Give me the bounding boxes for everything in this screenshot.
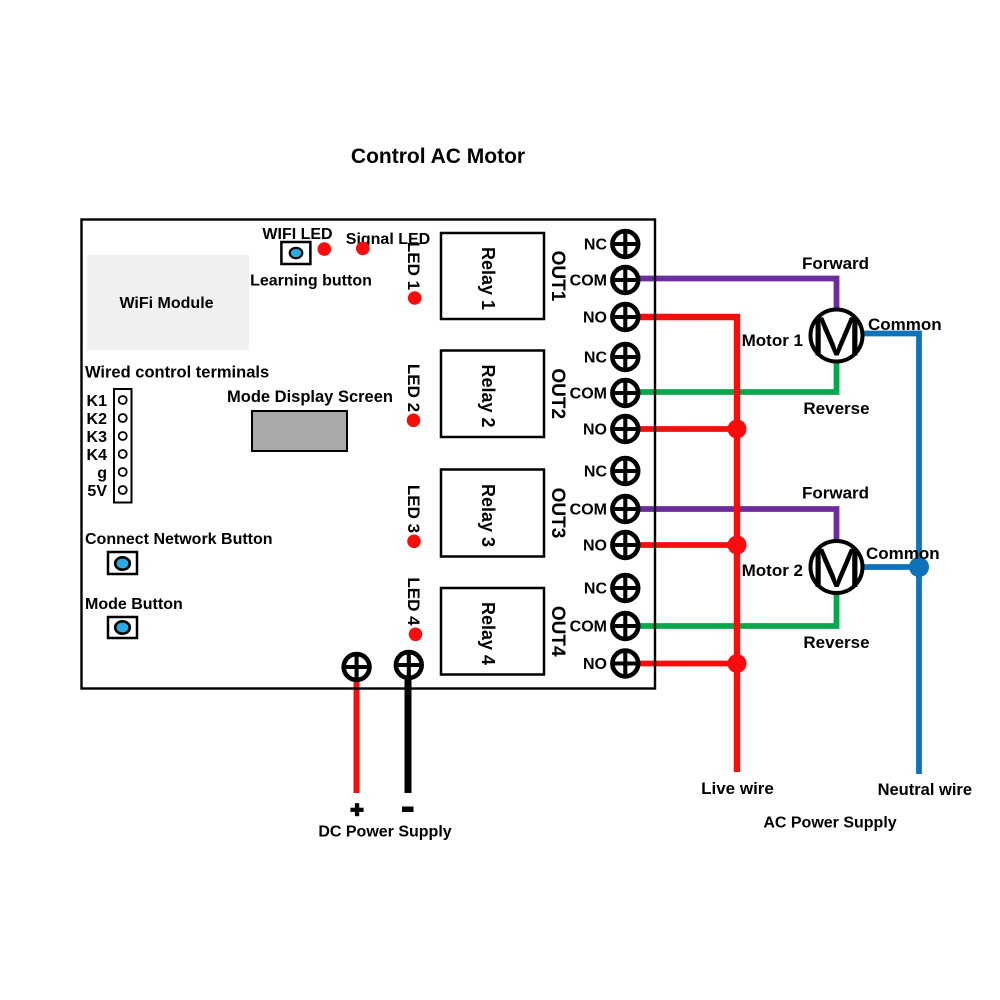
svg-text:Connect Network Button: Connect Network Button <box>85 531 273 548</box>
svg-text:Motor 1: Motor 1 <box>742 331 803 350</box>
svg-text:5V: 5V <box>87 483 107 500</box>
svg-text:NO: NO <box>583 538 607 555</box>
svg-text:AC Power Supply: AC Power Supply <box>763 815 896 832</box>
svg-text:NO: NO <box>583 422 607 439</box>
svg-text:LED 1: LED 1 <box>404 242 423 290</box>
svg-text:NC: NC <box>584 464 608 481</box>
svg-text:NO: NO <box>583 656 607 673</box>
svg-text:NC: NC <box>584 237 608 254</box>
svg-text:Reverse: Reverse <box>803 399 869 418</box>
svg-text:Relay 3: Relay 3 <box>478 484 498 547</box>
svg-text:DC Power Supply: DC Power Supply <box>318 824 451 841</box>
svg-text:NC: NC <box>584 350 608 367</box>
svg-text:LED 3: LED 3 <box>404 485 423 533</box>
svg-text:Relay 4: Relay 4 <box>478 602 498 665</box>
svg-text:COM: COM <box>570 619 607 636</box>
svg-text:Common: Common <box>868 315 942 334</box>
svg-text:OUT1: OUT1 <box>547 251 568 302</box>
svg-text:Relay 1: Relay 1 <box>478 247 498 310</box>
svg-text:NO: NO <box>583 310 607 327</box>
svg-text:Relay 2: Relay 2 <box>478 364 498 427</box>
svg-text:OUT3: OUT3 <box>547 488 568 539</box>
svg-text:K3: K3 <box>87 429 108 446</box>
svg-text:Learning button: Learning button <box>250 273 372 290</box>
svg-text:g: g <box>97 465 107 482</box>
svg-text:OUT4: OUT4 <box>547 606 568 657</box>
svg-text:Forward: Forward <box>802 484 869 503</box>
svg-text:Common: Common <box>866 544 940 563</box>
svg-text:K2: K2 <box>87 411 108 428</box>
svg-text:COM: COM <box>570 386 607 403</box>
svg-text:K1: K1 <box>87 393 108 410</box>
svg-text:WiFi Module: WiFi Module <box>119 295 213 312</box>
svg-text:Mode Button: Mode Button <box>85 596 183 613</box>
svg-text:NC: NC <box>584 581 608 598</box>
svg-text:Mode Display Screen: Mode Display Screen <box>227 388 393 406</box>
svg-text:LED 2: LED 2 <box>404 364 423 412</box>
svg-text:K4: K4 <box>87 447 108 464</box>
svg-text:COM: COM <box>570 502 607 519</box>
svg-text:Motor 2: Motor 2 <box>742 561 803 580</box>
svg-text:Live wire: Live wire <box>701 779 774 798</box>
svg-text:Neutral wire: Neutral wire <box>878 781 972 799</box>
svg-text:Forward: Forward <box>802 254 869 273</box>
svg-text:Wired control terminals: Wired control terminals <box>85 364 269 382</box>
svg-text:Control AC Motor: Control AC Motor <box>351 145 525 168</box>
svg-text:WIFI LED: WIFI LED <box>262 226 332 243</box>
svg-text:OUT2: OUT2 <box>547 368 568 419</box>
svg-text:M: M <box>810 536 862 599</box>
svg-text:Reverse: Reverse <box>803 633 869 652</box>
svg-text:M: M <box>810 305 862 368</box>
svg-text:LED 4: LED 4 <box>404 577 423 626</box>
svg-text:COM: COM <box>570 273 607 290</box>
